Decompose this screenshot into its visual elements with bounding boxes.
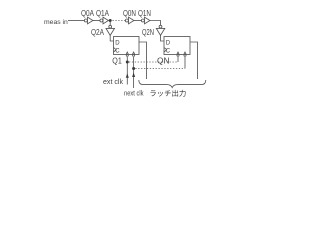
wire next clk riser — [133, 57, 135, 88]
clock input 1 bottom Q1 — [126, 52, 128, 56]
buffer Q1A — [100, 17, 109, 24]
node junction after Q1A — [109, 19, 112, 22]
wire riser QN clock 1 — [177, 57, 179, 62]
svg-text:Q2N: Q2N — [142, 28, 154, 37]
svg-text:ext clk: ext clk — [103, 79, 123, 86]
svg-text:Q1: Q1 — [112, 55, 122, 65]
svg-text:D: D — [166, 40, 171, 46]
wire ext clk riser — [126, 57, 128, 85]
clock input 2 bottom QN — [184, 52, 186, 56]
wire dotted to Q0N — [113, 20, 126, 22]
wire Q2A to D of Q1 — [110, 35, 113, 41]
buffer Q1N — [141, 17, 150, 24]
svg-text:QN: QN — [157, 55, 170, 65]
wire Q1 output — [139, 42, 147, 79]
svg-text:meas in: meas in — [44, 19, 68, 26]
node junction next clk — [132, 67, 135, 70]
clock wedge left Q1 — [114, 47, 117, 52]
wire QN output — [190, 42, 198, 79]
clock input 2 bottom Q1 — [132, 52, 134, 56]
wire dotted next clk to QN clock — [135, 68, 185, 70]
buffer Q2N (down) — [156, 25, 165, 35]
wire meas in to Q0A — [68, 20, 84, 22]
svg-text:Q0A: Q0A — [81, 9, 95, 18]
svg-text:D: D — [115, 40, 120, 46]
buffer Q0A — [84, 17, 93, 24]
svg-text:next clk: next clk — [124, 90, 144, 97]
wire Q0A to Q1A — [93, 20, 100, 22]
wire Q2N to D of QN — [161, 35, 165, 41]
clock wedge left QN — [164, 47, 167, 52]
arrow up next clk — [132, 72, 135, 77]
flip-flop QN — [164, 37, 190, 55]
wire Q1N output to corner down — [150, 21, 161, 26]
svg-text:Q1N: Q1N — [138, 9, 151, 18]
svg-text:Q2A: Q2A — [91, 28, 105, 37]
clock input 1 bottom QN — [177, 52, 179, 56]
wire junction down to Q2A — [109, 22, 111, 26]
wire riser QN clock 2 — [184, 57, 186, 69]
arrow up ext clk — [126, 73, 129, 78]
svg-text:Q0N: Q0N — [123, 9, 136, 18]
brace latch outputs — [139, 80, 206, 88]
node latch output label (Japanese) — [150, 90, 185, 97]
node junction ext clk — [126, 61, 129, 64]
wire Q0N to Q1N — [134, 20, 142, 22]
flip-flop Q1 — [114, 37, 140, 55]
buffer Q0N — [125, 17, 133, 24]
wire dotted ext clk to QN clock — [129, 61, 178, 63]
buffer Q2A (down) — [106, 25, 115, 35]
